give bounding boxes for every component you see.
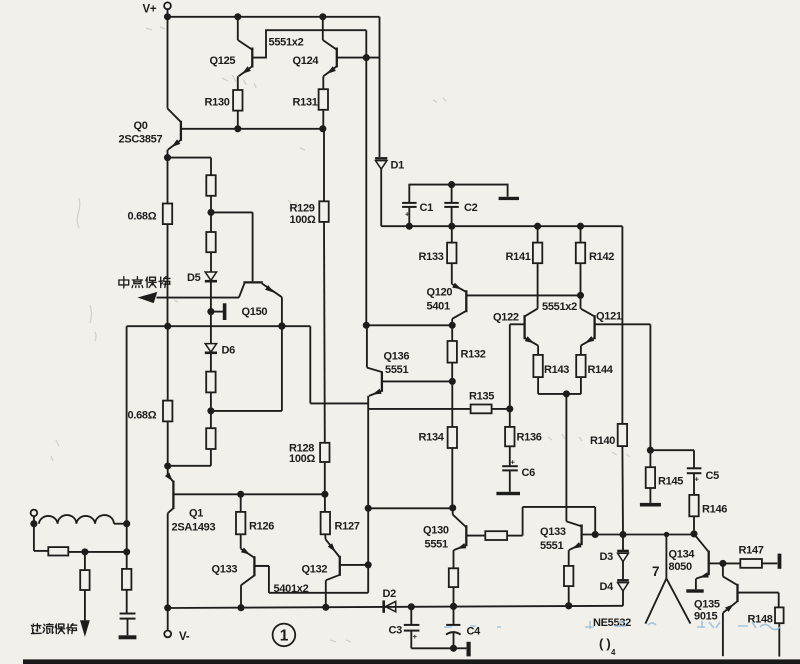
svg-text:R136: R136 <box>517 432 542 444</box>
svg-text:( ): ( ) <box>599 636 610 651</box>
svg-text:R131: R131 <box>293 97 318 109</box>
svg-text:C6: C6 <box>522 467 536 479</box>
svg-text:D4: D4 <box>600 581 615 593</box>
svg-text:5551: 5551 <box>385 364 408 376</box>
svg-text:C5: C5 <box>706 470 720 482</box>
svg-text:R133: R133 <box>419 251 444 263</box>
svg-text:R148: R148 <box>748 614 773 626</box>
svg-text:R126: R126 <box>249 521 274 533</box>
svg-text:100Ω: 100Ω <box>290 214 316 226</box>
svg-text:R146: R146 <box>702 504 727 516</box>
svg-text:R147: R147 <box>739 545 764 557</box>
svg-text:C3: C3 <box>389 625 403 637</box>
svg-text:R134: R134 <box>419 432 445 444</box>
svg-text:R132: R132 <box>461 349 486 361</box>
svg-text:D5: D5 <box>187 272 201 284</box>
svg-text:R144: R144 <box>588 364 614 376</box>
svg-text:R143: R143 <box>544 364 569 376</box>
svg-text:2SA1493: 2SA1493 <box>172 522 216 534</box>
svg-text:R140: R140 <box>590 435 615 447</box>
svg-text:Q135: Q135 <box>694 599 720 611</box>
svg-text:C2: C2 <box>464 202 478 214</box>
svg-text:Q134: Q134 <box>669 549 696 561</box>
svg-text:100Ω: 100Ω <box>289 453 315 465</box>
svg-text:R142: R142 <box>589 251 614 263</box>
svg-text:Q125: Q125 <box>210 55 236 67</box>
svg-text:D2: D2 <box>383 588 397 600</box>
svg-text:9015: 9015 <box>694 611 717 623</box>
svg-text:5551: 5551 <box>425 539 448 551</box>
svg-text:8050: 8050 <box>669 561 692 573</box>
svg-text:Q1: Q1 <box>189 508 203 520</box>
svg-text:C4: C4 <box>467 626 482 638</box>
svg-text:0.68Ω: 0.68Ω <box>128 211 157 223</box>
svg-text:Q122: Q122 <box>493 312 519 324</box>
svg-text:V+: V+ <box>143 4 157 16</box>
svg-text:Q132: Q132 <box>302 564 328 576</box>
svg-text:Q121: Q121 <box>596 311 622 323</box>
svg-text:5551: 5551 <box>540 540 563 552</box>
svg-text:0.68Ω: 0.68Ω <box>128 410 157 422</box>
svg-text:Q124: Q124 <box>293 55 320 67</box>
svg-text:2SC3857: 2SC3857 <box>119 134 163 146</box>
svg-text:7: 7 <box>652 564 659 579</box>
svg-text:D1: D1 <box>391 160 405 172</box>
svg-text:5551x2: 5551x2 <box>542 301 577 313</box>
svg-text:R129: R129 <box>290 203 315 215</box>
svg-text:D3: D3 <box>600 551 614 563</box>
svg-text:Q0: Q0 <box>134 120 148 132</box>
svg-text:R135: R135 <box>469 391 494 403</box>
svg-text:Q150: Q150 <box>242 306 268 318</box>
svg-text:NE5532: NE5532 <box>593 617 631 629</box>
svg-text:R130: R130 <box>205 97 230 109</box>
svg-text:R141: R141 <box>506 251 531 263</box>
svg-text:Q136: Q136 <box>384 351 410 363</box>
svg-text:R127: R127 <box>335 521 360 533</box>
svg-text:V-: V- <box>179 631 190 643</box>
svg-text:1: 1 <box>280 628 289 645</box>
svg-text:C1: C1 <box>420 202 434 214</box>
svg-text:Q133: Q133 <box>540 526 566 538</box>
svg-text:D6: D6 <box>222 345 236 357</box>
svg-text:5551x2: 5551x2 <box>269 37 304 49</box>
svg-text:R145: R145 <box>658 476 683 488</box>
svg-text:Q120: Q120 <box>427 287 453 299</box>
svg-text:5401x2: 5401x2 <box>274 583 309 595</box>
svg-text:5401: 5401 <box>427 301 450 313</box>
svg-text:Q130: Q130 <box>423 525 449 537</box>
svg-text:Q133: Q133 <box>212 564 238 576</box>
